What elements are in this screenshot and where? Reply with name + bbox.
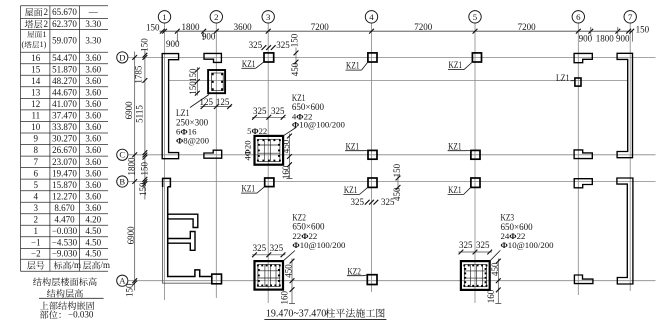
svg-text:LZ1: LZ1	[556, 73, 570, 83]
axis circle 1	[158, 11, 170, 23]
svg-text:325: 325	[253, 106, 267, 116]
svg-text:KZ1: KZ1	[242, 184, 256, 194]
column KZ1 at 5-C	[471, 150, 480, 159]
svg-text:KZ1: KZ1	[346, 61, 360, 71]
svg-text:8.670: 8.670	[54, 203, 75, 213]
svg-text:1800: 1800	[182, 22, 201, 32]
svg-text:325: 325	[459, 240, 473, 250]
svg-text:12.270: 12.270	[52, 191, 77, 201]
svg-text:2: 2	[34, 214, 39, 224]
svg-text:3.60: 3.60	[85, 145, 101, 155]
axis circle C	[117, 149, 128, 160]
shear wall right axis7 B-A	[617, 178, 633, 284]
svg-text:150: 150	[636, 24, 650, 34]
svg-text:1: 1	[34, 226, 39, 236]
svg-text:51.870: 51.870	[52, 64, 77, 74]
svg-text:19.470: 19.470	[52, 168, 77, 178]
svg-text:150: 150	[188, 68, 198, 82]
axis circle 7	[624, 11, 636, 23]
svg-text:Φ10@100/200: Φ10@100/200	[292, 119, 346, 129]
svg-text:−4.530: −4.530	[52, 238, 78, 248]
svg-text:B: B	[119, 176, 125, 186]
axis circle B	[117, 176, 128, 187]
svg-text:325: 325	[276, 40, 290, 50]
svg-text:44.670: 44.670	[52, 88, 77, 98]
svg-text:160: 160	[281, 165, 291, 179]
svg-text:30.270: 30.270	[52, 134, 77, 144]
stair core branch 1	[168, 214, 198, 227]
svg-text:KZ1: KZ1	[242, 59, 256, 69]
dim 450 right of KZ1 section	[289, 134, 291, 179]
svg-text:900: 900	[616, 33, 630, 43]
left dimension chains with ticks	[134, 52, 136, 291]
axis circle 4	[365, 11, 377, 23]
leader LZ1 section to text	[190, 95, 209, 108]
svg-text:26.670: 26.670	[52, 145, 77, 155]
svg-text:8: 8	[34, 145, 39, 155]
svg-text:KZ1: KZ1	[346, 141, 360, 151]
wall return at 6-A	[574, 275, 593, 284]
svg-text:−0.030: −0.030	[52, 226, 78, 236]
svg-text:325: 325	[253, 243, 267, 253]
svg-text:1: 1	[162, 12, 166, 22]
svg-text:325: 325	[270, 243, 284, 253]
svg-text:12: 12	[31, 99, 40, 109]
svg-text:450: 450	[490, 262, 500, 276]
svg-text:1785: 1785	[134, 65, 144, 84]
svg-text:KZ1: KZ1	[344, 185, 358, 195]
dim 450 right of KZ2 section	[291, 259, 293, 304]
svg-text:325: 325	[351, 197, 365, 207]
svg-text:125: 125	[200, 97, 214, 107]
svg-text:3.60: 3.60	[85, 168, 101, 178]
svg-text:150: 150	[139, 38, 149, 52]
svg-text:KZ1: KZ1	[449, 60, 463, 70]
svg-text:325: 325	[476, 240, 490, 250]
column KZ1 at 4-C	[368, 150, 377, 159]
note line 3	[40, 301, 94, 309]
wall return at 6-D	[574, 53, 592, 62]
svg-text:13: 13	[31, 88, 41, 98]
axis circle 5	[469, 11, 481, 23]
svg-text:3.60: 3.60	[85, 180, 101, 190]
svg-text:3.60: 3.60	[85, 64, 101, 74]
floor level table grid	[21, 5, 109, 7]
section detail KZ3 at 5-A	[461, 261, 490, 290]
note line 4	[40, 310, 61, 318]
svg-text:14: 14	[31, 76, 41, 86]
svg-text:3.60: 3.60	[85, 122, 101, 132]
svg-text:65.670: 65.670	[52, 7, 77, 17]
svg-text:3.30: 3.30	[85, 19, 101, 29]
axis circle A	[117, 275, 128, 286]
dim 150 150 left of LZ1 section	[196, 67, 198, 96]
svg-text:2: 2	[44, 7, 49, 17]
svg-text:10: 10	[31, 122, 41, 132]
axis line 2	[215, 23, 217, 298]
dim 450 right of KZ3 section	[497, 259, 499, 304]
svg-text:6900: 6900	[126, 226, 136, 245]
svg-text:KZ1: KZ1	[448, 185, 462, 195]
svg-text:11: 11	[31, 111, 40, 121]
svg-text:4.20: 4.20	[85, 214, 101, 224]
leader KZ2 section to text	[283, 251, 295, 262]
svg-text:7200: 7200	[518, 22, 537, 32]
svg-text:150: 150	[188, 81, 198, 95]
svg-text:54.470: 54.470	[52, 53, 77, 63]
svg-text:KZ2: KZ2	[347, 266, 361, 276]
axis line 3	[267, 23, 269, 303]
svg-text:9: 9	[34, 134, 39, 144]
svg-text:3.60: 3.60	[85, 191, 101, 201]
stair core thick inner face with stub	[168, 187, 212, 277]
axis line 1	[164, 23, 166, 300]
svg-text:37.470: 37.470	[52, 111, 77, 121]
svg-text:23.070: 23.070	[52, 157, 77, 167]
stair core branch 2	[168, 232, 195, 251]
svg-text:48.270: 48.270	[52, 76, 77, 86]
svg-text:6: 6	[576, 12, 581, 22]
axis line B	[128, 181, 656, 183]
svg-text:C: C	[119, 150, 125, 160]
svg-text:150: 150	[139, 161, 149, 175]
svg-text:2: 2	[44, 19, 49, 29]
svg-text:33.870: 33.870	[52, 122, 77, 132]
axis line 5	[474, 23, 476, 303]
svg-text:900: 900	[166, 39, 180, 49]
svg-text:4: 4	[34, 191, 39, 201]
svg-text:19.470~37.470: 19.470~37.470	[266, 308, 326, 319]
axis line 4	[371, 23, 373, 292]
svg-text:/m: /m	[72, 260, 82, 270]
axis circle 3	[262, 11, 274, 23]
svg-text:Φ10@100/200: Φ10@100/200	[501, 240, 555, 250]
svg-text:3: 3	[266, 12, 271, 22]
svg-text:3.60: 3.60	[85, 111, 101, 121]
svg-text:1800: 1800	[126, 157, 136, 176]
svg-text:4.50: 4.50	[85, 249, 101, 259]
svg-text:5: 5	[473, 12, 478, 22]
column KZ1 at 5-D	[472, 53, 481, 62]
axis circle 2	[210, 11, 222, 23]
svg-text:Φ10@100/200: Φ10@100/200	[292, 240, 346, 250]
column KZ1 at 3-D	[264, 53, 274, 62]
svg-text:900: 900	[202, 32, 216, 42]
svg-text:3.60: 3.60	[85, 203, 101, 213]
svg-text:KZ1: KZ1	[448, 141, 462, 151]
section detail KZ1 at 3-C	[255, 136, 284, 165]
svg-text:5: 5	[34, 180, 39, 190]
svg-text:7200: 7200	[311, 22, 330, 32]
svg-text:450: 450	[290, 62, 300, 76]
svg-text:6900: 6900	[124, 101, 134, 120]
svg-text:4.50: 4.50	[85, 226, 101, 236]
svg-text:(: (	[22, 40, 25, 49]
wall return at 6-B	[574, 179, 592, 188]
wall return at 2-D	[204, 53, 221, 62]
column KZ1 at 5-B	[471, 178, 480, 187]
wall return at 2-C	[204, 150, 222, 158]
svg-text:Φ8@200: Φ8@200	[176, 135, 210, 145]
svg-text:3.60: 3.60	[85, 99, 101, 109]
svg-text:150: 150	[290, 33, 300, 47]
top dimension line with ticks	[160, 30, 633, 32]
svg-text:2: 2	[214, 12, 218, 22]
svg-text:150: 150	[392, 163, 402, 177]
axis line 6	[577, 23, 579, 295]
svg-text:7200: 7200	[414, 22, 433, 32]
leader KZ3 section to text	[490, 250, 501, 261]
axis line A	[128, 280, 656, 282]
svg-text:3600: 3600	[234, 22, 253, 32]
svg-text:160: 160	[280, 291, 290, 305]
column KZ1 at 4-B	[368, 178, 377, 187]
svg-text:6: 6	[34, 168, 39, 178]
axis line D	[128, 56, 656, 58]
column KZ1 at 3-B	[265, 178, 274, 187]
svg-text:900: 900	[579, 33, 593, 43]
shear wall left core axis1 D-C	[162, 54, 178, 159]
svg-text:4Φ20: 4Φ20	[243, 140, 253, 160]
svg-text:150: 150	[146, 22, 160, 32]
svg-text:−2: −2	[31, 249, 41, 259]
note line 1	[33, 277, 97, 286]
svg-text:1: 1	[43, 30, 47, 39]
section detail KZ2 at 3-A	[255, 261, 284, 290]
column KZ1 at 4-D	[368, 53, 377, 62]
svg-text:3.60: 3.60	[85, 134, 101, 144]
stair core end block at 2-A	[212, 274, 222, 284]
svg-text:3.60: 3.60	[85, 76, 101, 86]
leader KZ1 section to text	[283, 128, 296, 136]
axis circle 6	[572, 11, 584, 23]
axis circle D	[117, 52, 128, 63]
svg-text:3: 3	[34, 203, 39, 213]
svg-text:41.070: 41.070	[52, 99, 77, 109]
svg-text:150: 150	[138, 182, 148, 196]
svg-text:59.070: 59.070	[52, 36, 77, 46]
svg-text:4: 4	[369, 12, 374, 22]
svg-text:−9.030: −9.030	[52, 249, 78, 259]
svg-text:150: 150	[125, 283, 135, 297]
svg-text:16: 16	[31, 53, 41, 63]
svg-text:3.60: 3.60	[85, 88, 101, 98]
section detail LZ1 at 2	[208, 70, 225, 93]
svg-text:5115: 5115	[135, 105, 145, 123]
note divider	[39, 297, 104, 299]
svg-text:3.60: 3.60	[85, 53, 101, 63]
column LZ1 at 6	[575, 78, 581, 86]
svg-text:4.470: 4.470	[54, 214, 75, 224]
svg-text:5Φ22: 5Φ22	[247, 126, 267, 136]
svg-text:3.30: 3.30	[85, 36, 101, 46]
axis line C	[128, 154, 656, 156]
column KZ2 at 4-A	[367, 275, 377, 285]
svg-text:15: 15	[31, 64, 41, 74]
svg-text:62.370: 62.370	[52, 19, 77, 29]
svg-text:160: 160	[486, 289, 496, 303]
svg-text:D: D	[119, 52, 125, 62]
svg-text:450: 450	[284, 264, 294, 278]
wall line below D	[168, 80, 628, 82]
floor level table text	[25, 8, 43, 16]
shear wall right axis7 D-C	[617, 53, 632, 157]
svg-text:450: 450	[281, 139, 291, 153]
note line 2	[47, 289, 83, 298]
svg-text:1800: 1800	[596, 33, 615, 43]
svg-text:15.870: 15.870	[52, 180, 77, 190]
stair core thin outer face	[163, 178, 214, 283]
svg-text:1): 1)	[40, 40, 47, 49]
svg-text:—: —	[88, 7, 99, 17]
svg-text:325: 325	[249, 40, 263, 50]
svg-text:3.60: 3.60	[85, 157, 101, 167]
svg-text:−0.030: −0.030	[68, 310, 94, 320]
svg-text:325: 325	[271, 106, 285, 116]
svg-text:7: 7	[628, 12, 633, 22]
stair core pier at B	[163, 178, 171, 187]
axis line 7	[629, 23, 631, 291]
svg-text:/m: /m	[101, 260, 111, 270]
wall return at 6-C	[574, 150, 592, 159]
svg-text:−1: −1	[31, 238, 41, 248]
svg-text:4.50: 4.50	[85, 238, 101, 248]
svg-text:7: 7	[34, 157, 39, 167]
svg-text:450: 450	[392, 187, 402, 201]
